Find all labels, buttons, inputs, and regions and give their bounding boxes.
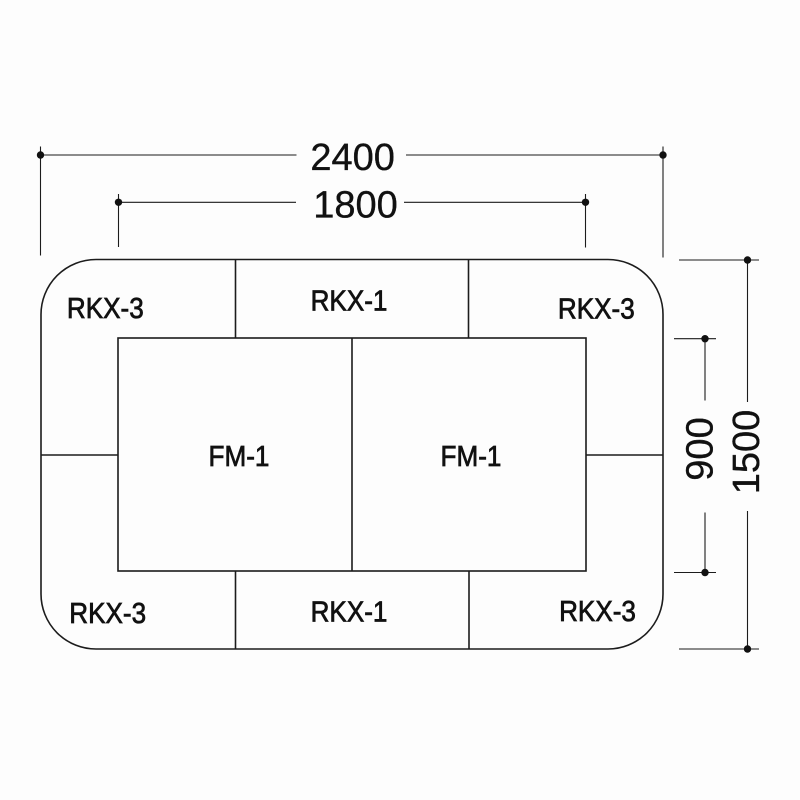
svg-text:900: 900 [680,417,722,480]
svg-text:FM-1: FM-1 [209,441,270,473]
svg-text:FM-1: FM-1 [441,441,502,473]
svg-text:2400: 2400 [310,137,395,179]
svg-text:RKX-3: RKX-3 [558,294,635,326]
svg-text:RKX-1: RKX-1 [311,597,388,629]
svg-text:RKX-3: RKX-3 [69,598,146,630]
svg-text:1800: 1800 [313,184,398,226]
svg-text:RKX-1: RKX-1 [311,286,388,318]
svg-text:RKX-3: RKX-3 [559,596,636,628]
svg-text:1500: 1500 [726,410,768,495]
svg-text:RKX-3: RKX-3 [67,293,144,325]
